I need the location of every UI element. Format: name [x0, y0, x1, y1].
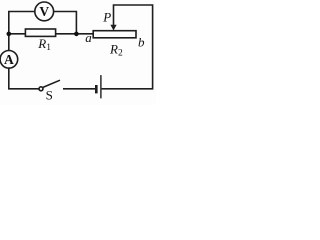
svg-text:b: b	[138, 35, 145, 50]
svg-text:S: S	[46, 88, 53, 103]
svg-text:a: a	[85, 30, 92, 45]
svg-text:A: A	[4, 52, 14, 67]
svg-text:V: V	[39, 4, 49, 19]
svg-text:P: P	[102, 9, 111, 24]
